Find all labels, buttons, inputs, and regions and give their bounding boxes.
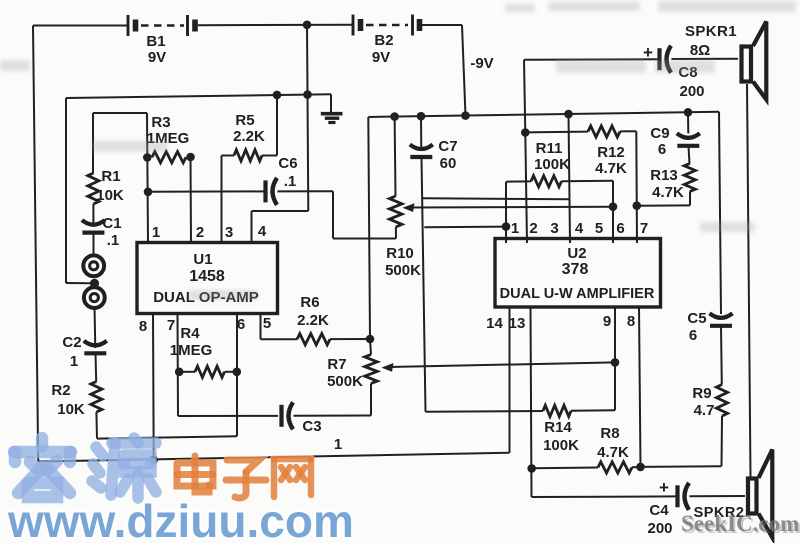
svg-text:C4: C4 (649, 502, 669, 519)
label C2 (62, 334, 81, 351)
pin 4 label (258, 223, 267, 240)
capacitor C3 (282, 402, 294, 429)
wire R1 top stub (92, 113, 94, 173)
pin 3 label U2 (550, 220, 558, 237)
wire C7 to pin1 (424, 226, 506, 229)
wire C6 line (148, 190, 265, 192)
wire C7 cross line (423, 198, 570, 199)
label R4 (180, 325, 200, 342)
pin 4 label U2 (575, 220, 584, 237)
label U2 378 (562, 261, 589, 278)
svg-text:8: 8 (627, 313, 635, 330)
label R2 (51, 382, 70, 399)
label C2 1 (70, 353, 78, 370)
svg-text:R3: R3 (151, 114, 170, 131)
label R12 4.7K (595, 160, 627, 177)
wire R7 bottom stub (370, 384, 372, 416)
svg-text:B2: B2 (374, 32, 393, 49)
wire pin13 to C4 (532, 495, 676, 498)
svg-text:200: 200 (647, 520, 672, 537)
svg-text:-9V: -9V (470, 55, 493, 72)
svg-text:R11: R11 (536, 140, 563, 157)
label U1 1458 (189, 268, 225, 285)
svg-text:7: 7 (167, 317, 175, 334)
wire SPKR1 bottom drop (747, 84, 751, 477)
node rail B2 feed (461, 111, 470, 120)
wire C4 to SPKR2 (690, 495, 746, 497)
svg-text:R6: R6 (300, 294, 319, 311)
svg-text:3: 3 (550, 220, 558, 237)
node pin6 junction (609, 202, 618, 211)
label C4 (649, 502, 669, 519)
label C1 (102, 215, 121, 232)
wire R6 junction to rail (368, 117, 370, 339)
svg-text:8: 8 (139, 318, 147, 335)
wire R11 right (562, 180, 614, 183)
resistor R6 (297, 334, 330, 345)
label U2 DUAL U-W AMPLIFIER (500, 286, 655, 302)
node R6/R7 junction (366, 335, 375, 344)
wire C7 top (420, 116, 422, 150)
wire R5 left stub (222, 155, 235, 157)
watermark dziuu (7, 495, 354, 543)
svg-text:2: 2 (529, 220, 537, 237)
svg-text:6: 6 (689, 327, 697, 344)
label R3 1MEG (147, 130, 190, 147)
label R6 2.2K (297, 312, 329, 329)
node C8/R12/pin2 junction (521, 128, 530, 137)
svg-text:1458: 1458 (189, 268, 225, 285)
svg-text:R14: R14 (544, 419, 572, 436)
svg-text:9V: 9V (372, 49, 390, 66)
node pin9 wiper junction (611, 358, 620, 367)
svg-text:R13: R13 (650, 167, 678, 184)
label B1 (146, 33, 165, 50)
label R9 (692, 385, 711, 402)
node rail R10 (390, 112, 399, 121)
wire pin3 vertical (221, 156, 223, 244)
wire R7 top stub (370, 339, 371, 355)
watermark zi (226, 460, 266, 498)
svg-text:4.7: 4.7 (694, 402, 715, 419)
jack J2 (84, 287, 105, 308)
wire C1-jack (93, 233, 95, 256)
wire jack-C2 (94, 307, 97, 349)
svg-text:R4: R4 (180, 325, 200, 342)
wire U1 pin4 stub (251, 211, 253, 243)
svg-text:www.dziuu.com: www.dziuu.com (7, 495, 354, 543)
node rail U2 pin34 (564, 110, 573, 119)
resistor R10 (389, 196, 402, 227)
capacitor C4 (678, 483, 690, 510)
capacitor C8 (660, 46, 672, 73)
label SPKR1 8ohm (690, 42, 710, 59)
resistor R13 (684, 164, 695, 192)
wire pin4 feed vertical (307, 95, 310, 211)
svg-text:14: 14 (486, 315, 503, 332)
label R4 1MEG (170, 342, 213, 359)
node R3 right (186, 153, 195, 162)
watermark seekic (681, 511, 800, 538)
pin 2 label (196, 224, 204, 241)
wire R14 left (426, 410, 544, 413)
wire U2 pin1 riser (505, 182, 507, 243)
svg-text:C1: C1 (102, 215, 121, 232)
wire C6 step right (333, 238, 396, 240)
resistor R9 (716, 385, 727, 417)
label R8 4.7K (597, 444, 629, 461)
svg-text:R5: R5 (235, 112, 254, 129)
svg-text:SPKR1: SPKR1 (685, 23, 737, 40)
wire pin4 feed horizontal (252, 210, 309, 212)
wire pin2 vertical (190, 157, 193, 243)
label R5 (235, 112, 254, 129)
svg-text:C5: C5 (687, 310, 706, 327)
svg-text:1: 1 (511, 220, 519, 237)
pin 13 label (509, 315, 526, 332)
node rail C7 (417, 112, 426, 121)
node R4 right (233, 368, 242, 377)
watermark yuan (92, 438, 156, 498)
wire U1 pin5 (260, 314, 262, 339)
wire C8 to SPKR1 (672, 58, 739, 60)
svg-text:500K: 500K (327, 373, 363, 390)
pin 7 label (167, 317, 175, 334)
speaker SPKR1 (742, 22, 767, 100)
label R5 2.2K (233, 128, 265, 145)
svg-text:R1: R1 (101, 168, 120, 185)
wire pin1 vertical (147, 113, 148, 243)
label R7 (327, 356, 346, 373)
pin 1 label U2 (511, 220, 519, 237)
pin 6 label U2 (616, 220, 624, 237)
svg-text:1: 1 (334, 436, 342, 453)
wire C2-R2 (95, 354, 98, 382)
svg-text:1: 1 (70, 353, 78, 370)
svg-text:100K: 100K (534, 156, 570, 173)
resistor R4 (195, 366, 225, 377)
label B2 9V (372, 49, 390, 66)
label R1 10K (96, 187, 124, 204)
label R2 10K (57, 401, 85, 418)
wire R1-C1 (92, 204, 94, 227)
pin 5 label U2 (595, 220, 603, 237)
label R7 500K (327, 373, 363, 390)
label R12 (597, 144, 625, 161)
svg-text:4.7K: 4.7K (595, 160, 627, 177)
label C7 60 (440, 155, 457, 172)
label C4 200 (647, 520, 672, 537)
pin 8 label (139, 318, 147, 335)
svg-text:4.7K: 4.7K (652, 184, 684, 201)
label R11 (536, 140, 563, 157)
node R4 left (175, 368, 184, 377)
resistor R14 (543, 405, 571, 416)
amplifier U2 box (495, 239, 661, 308)
svg-text:6: 6 (237, 316, 245, 333)
wire R10 wiper line (410, 206, 613, 209)
svg-text:U1: U1 (193, 251, 212, 268)
node bottom rail / U1 pin8 (149, 456, 158, 465)
svg-text:500K: 500K (385, 262, 421, 279)
svg-text:R7: R7 (327, 356, 346, 373)
watermark wang (274, 459, 311, 497)
svg-text:6: 6 (616, 220, 624, 237)
label R1 (101, 168, 120, 185)
svg-text:10K: 10K (57, 401, 85, 418)
capacitor C7 (410, 145, 433, 158)
svg-text:5: 5 (595, 220, 603, 237)
wire R10 bottom stub (395, 227, 397, 239)
svg-text:C6: C6 (278, 155, 297, 172)
svg-text:4.7K: 4.7K (597, 444, 629, 461)
wire U1 pin7 (177, 314, 180, 416)
wire R5 right riser (276, 95, 278, 156)
svg-text:U2: U2 (567, 245, 586, 262)
node R3 left (143, 153, 152, 162)
pin 6 label (237, 316, 245, 333)
svg-text:7: 7 (640, 220, 648, 237)
label C6 (278, 155, 297, 172)
node pin7 junction (633, 201, 642, 210)
wire U2 pin8 (639, 307, 641, 467)
wire R9 bottom line (641, 465, 722, 468)
svg-text:R2: R2 (51, 382, 70, 399)
wire U2 pin7 riser (635, 131, 638, 243)
wire C8 riser (524, 60, 525, 133)
op-amp U1 box (137, 243, 278, 314)
svg-text:+: + (659, 478, 669, 497)
label C8 (678, 64, 697, 81)
node rail R5 (273, 91, 282, 100)
wire C7 bottom vertical (422, 158, 426, 412)
label SPKR1 (685, 23, 737, 40)
wire C8 line left (524, 58, 660, 61)
wire R2 bottom (95, 412, 98, 439)
wire U2 pin6 riser (612, 181, 614, 243)
label C3 (302, 418, 321, 435)
svg-text:1: 1 (152, 224, 160, 241)
watermark dian (177, 456, 213, 492)
pin 5 label (263, 315, 271, 332)
wire R13 to pin7 (637, 204, 690, 206)
capacitor C1 (82, 220, 105, 233)
capacitor C5 (710, 313, 733, 326)
wire -9V drop (462, 25, 466, 116)
label C5 (687, 310, 706, 327)
wire top rail (66, 94, 331, 98)
pin 9 label (603, 313, 611, 330)
wire pin5 to R6 (261, 338, 298, 340)
svg-text:2.2K: 2.2K (233, 128, 265, 145)
wire C6 step down (332, 191, 334, 238)
wire R7 wiper line (389, 362, 615, 367)
label R8 (600, 425, 619, 442)
svg-text:R12: R12 (597, 144, 625, 161)
label U1 DUAL OP-AMP (153, 289, 259, 306)
svg-text:200: 200 (679, 83, 704, 100)
wire B1-B2 (198, 24, 353, 26)
node U2 pin1 junction (502, 222, 511, 231)
wire R10 top (394, 117, 397, 196)
capacitor C2 (84, 341, 107, 354)
resistor R12 (588, 126, 620, 137)
svg-text:10K: 10K (96, 187, 124, 204)
resistor R1 (88, 173, 99, 204)
wire U1 pin8 (152, 314, 155, 460)
wire U1 pin6 (236, 314, 238, 436)
capacitor C9 (677, 133, 700, 146)
svg-text:DUAL U-W AMPLIFIER: DUAL U-W AMPLIFIER (500, 286, 655, 302)
label C6 .1 (284, 173, 297, 190)
label C7 (438, 138, 457, 155)
svg-text:C7: C7 (438, 138, 457, 155)
wire R13 bottom (689, 192, 691, 206)
svg-text:9: 9 (603, 313, 611, 330)
svg-text:4: 4 (575, 220, 584, 237)
svg-text:4: 4 (258, 223, 267, 240)
node R8/pin8 junction (636, 463, 645, 472)
label C9 6 (658, 141, 666, 158)
label C8 200 (679, 83, 704, 100)
resistor R3 (152, 152, 186, 163)
label B1 9V (148, 49, 166, 66)
wire battery junction down (306, 25, 309, 95)
svg-text:100K: 100K (543, 437, 579, 454)
wire bottom rail (38, 453, 509, 462)
label R10 (386, 245, 414, 262)
label U1 (193, 251, 212, 268)
svg-text:R10: R10 (386, 245, 414, 262)
node top rail / battery feed (303, 90, 312, 99)
capacitor C6 (266, 178, 278, 205)
svg-text:R9: R9 (692, 385, 711, 402)
wire B2 right (421, 24, 462, 26)
label C8 plus (643, 43, 653, 62)
ground (321, 94, 343, 122)
pin 1 label (152, 224, 160, 241)
wire U2 pin13 (531, 307, 532, 497)
wire R6 right (330, 338, 370, 340)
wire C5 top (719, 112, 721, 314)
label B2 (374, 32, 393, 49)
svg-text:C2: C2 (62, 334, 81, 351)
wire C9 top (687, 112, 689, 133)
wire C5-R9 (720, 326, 723, 384)
pin 8 label U2 (627, 313, 635, 330)
label R6 (300, 294, 319, 311)
label R11 100K (534, 156, 570, 173)
node jack junction (90, 279, 99, 288)
label U2 (567, 245, 586, 262)
resistor R8 (598, 462, 632, 473)
pin 3 label (225, 224, 233, 241)
wire inner frame vertical (65, 98, 67, 283)
wire C3 line right (294, 415, 372, 417)
wire R5 right stub (262, 155, 277, 157)
battery B1 (128, 15, 195, 36)
svg-text:1MEG: 1MEG (170, 342, 213, 359)
svg-text:.1: .1 (284, 173, 297, 190)
wire R8 right stub (632, 466, 641, 468)
svg-text:5: 5 (263, 315, 271, 332)
svg-text:13: 13 (509, 315, 526, 332)
svg-text:SeekIC.com: SeekIC.com (681, 511, 799, 536)
label C9 (650, 125, 669, 142)
speaker SPKR2 (748, 450, 772, 538)
wire inner frame to jacks (66, 282, 91, 284)
label -9V (470, 55, 493, 72)
scan artifact (0, 1, 796, 300)
wire U2 pin9 (614, 307, 616, 410)
label R9 4.7 (694, 402, 715, 419)
svg-text:9V: 9V (148, 49, 166, 66)
svg-text:R8: R8 (600, 425, 619, 442)
node rail C9 (684, 108, 693, 117)
svg-text:60: 60 (440, 155, 457, 172)
wire C6 right (278, 190, 334, 192)
wire R2 to pin6 net (97, 436, 237, 438)
node C6 line start (144, 188, 153, 197)
label C5 6 (689, 327, 697, 344)
svg-text:C3: C3 (302, 418, 321, 435)
wire R12 left (525, 131, 588, 134)
wire R9 bottom (721, 416, 724, 466)
wire B1 left feed (33, 25, 128, 27)
wire R11 left stub (506, 180, 531, 182)
label C3 1 (334, 436, 342, 453)
wiper arrow R7 (382, 363, 394, 372)
watermark rong (14, 438, 71, 497)
jack J1 (83, 255, 104, 276)
label C4 plus (659, 478, 669, 497)
resistor R11 (531, 176, 562, 187)
svg-text:B1: B1 (146, 33, 165, 50)
battery B2 (353, 15, 420, 36)
label SPKR2 (694, 505, 745, 521)
node pin13/R8 junction (527, 464, 536, 473)
svg-text:8Ω: 8Ω (690, 42, 710, 59)
resistor R7 (365, 355, 378, 384)
resistor R5 (234, 150, 262, 161)
label R13 4.7K (652, 184, 684, 201)
wire -9V rail (368, 112, 719, 117)
label R14 (544, 419, 572, 436)
pin 7 label U2 (640, 220, 648, 237)
wire outer left frame (33, 26, 38, 462)
wire R4 right stub (225, 371, 238, 373)
wire U2 pin34 riser (569, 114, 571, 243)
svg-text:3: 3 (225, 224, 233, 241)
svg-text:378: 378 (562, 261, 589, 278)
wire R12 right (620, 130, 636, 132)
label C1 .1 (107, 232, 120, 249)
svg-text:6: 6 (658, 141, 666, 158)
wire R14 right (571, 409, 615, 411)
svg-text:C9: C9 (650, 125, 669, 142)
wiper arrow R10 (403, 203, 415, 212)
svg-text:2: 2 (196, 224, 204, 241)
pin 14 label (486, 315, 503, 332)
wire R4 left stub (179, 371, 195, 373)
label R10 500K (385, 262, 421, 279)
wire C3 line left (178, 415, 278, 417)
wire C9-R13 (689, 146, 690, 163)
svg-text:2.2K: 2.2K (297, 312, 329, 329)
svg-text:.1: .1 (107, 232, 120, 249)
wire R8 left stub (532, 467, 598, 470)
node battery junction (303, 21, 312, 30)
